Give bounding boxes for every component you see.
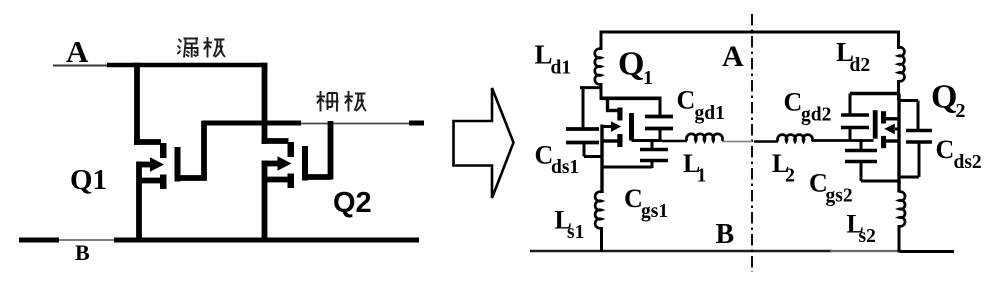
svg-text:s1: s1 xyxy=(567,222,584,243)
svg-text:2: 2 xyxy=(785,165,795,187)
svg-text:gs2: gs2 xyxy=(826,186,853,207)
svg-text:Q: Q xyxy=(931,79,957,116)
svg-text:Q2: Q2 xyxy=(333,187,372,219)
svg-text:2: 2 xyxy=(956,100,966,122)
svg-text:gd2: gd2 xyxy=(801,105,831,126)
svg-text:1: 1 xyxy=(697,165,707,187)
svg-text:1: 1 xyxy=(643,67,653,89)
svg-text:gd1: gd1 xyxy=(695,103,725,124)
svg-text:A: A xyxy=(722,40,744,73)
svg-text:C: C xyxy=(624,184,643,213)
svg-text:ds1: ds1 xyxy=(551,157,579,178)
svg-text:B: B xyxy=(716,219,735,250)
svg-text:A: A xyxy=(66,34,89,69)
svg-text:B: B xyxy=(75,240,90,265)
svg-text:gs1: gs1 xyxy=(641,201,668,222)
svg-text:Q: Q xyxy=(618,46,644,83)
svg-text:s2: s2 xyxy=(859,226,876,247)
svg-text:Q1: Q1 xyxy=(70,164,107,196)
svg-text:C: C xyxy=(936,135,955,164)
svg-text:d1: d1 xyxy=(551,58,572,79)
svg-text:C: C xyxy=(677,86,696,115)
svg-text:C: C xyxy=(784,88,803,117)
svg-text:d2: d2 xyxy=(850,55,871,76)
svg-text:ds2: ds2 xyxy=(954,152,982,173)
